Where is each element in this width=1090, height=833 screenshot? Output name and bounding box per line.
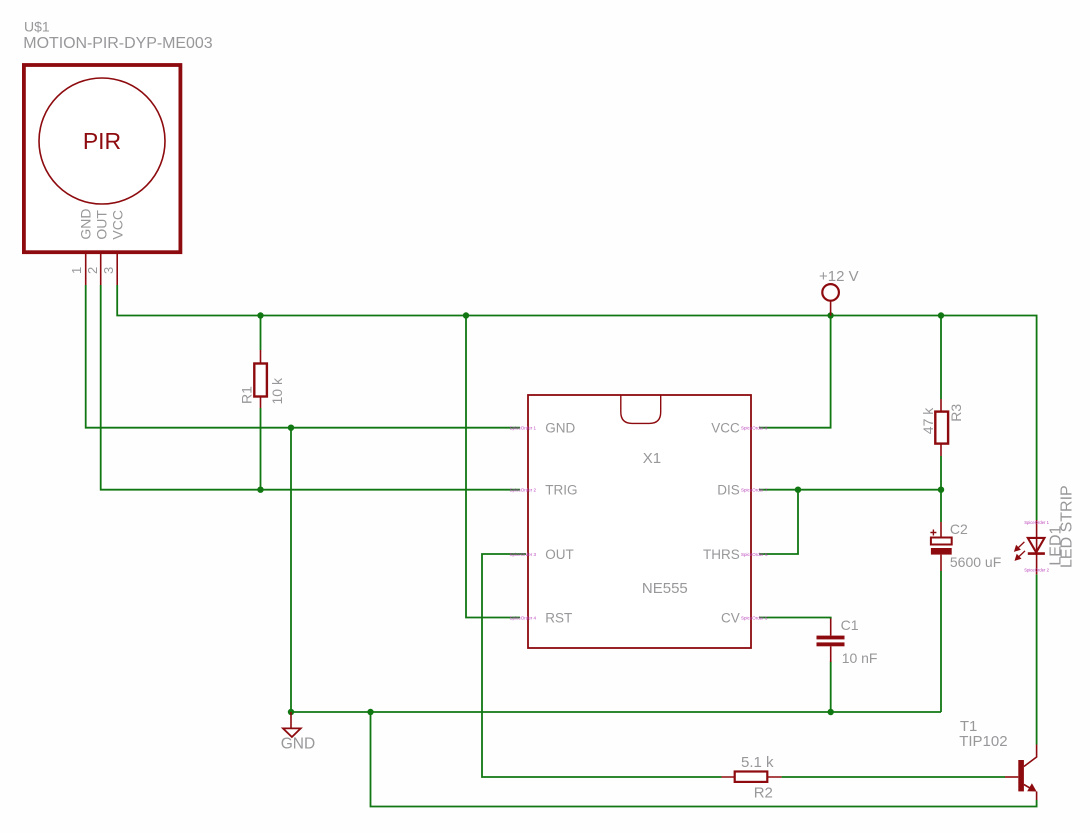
svg-text:GND: GND xyxy=(281,736,315,753)
svg-text:2: 2 xyxy=(85,267,100,274)
label NE555 xyxy=(642,580,688,597)
resistor R2 xyxy=(722,772,782,782)
pin name RST (X1) xyxy=(545,610,572,625)
svg-text:47 k: 47 k xyxy=(920,407,936,434)
svg-text:SpiceOrder 7: SpiceOrder 7 xyxy=(741,488,768,493)
transistor T1 TIP102 xyxy=(1005,745,1037,801)
value 5.1 k (R2) xyxy=(741,754,774,771)
LED LED1 xyxy=(1014,520,1045,574)
junction dot TRIG row R1 bottom xyxy=(257,487,263,493)
pin mark DIS (X1) xyxy=(741,488,768,493)
junction dot RST riser top xyxy=(463,312,469,318)
label C1 xyxy=(841,617,859,633)
svg-text:SpiceOrder 1: SpiceOrder 1 xyxy=(1024,520,1049,525)
svg-text:SpiceOrder 4: SpiceOrder 4 xyxy=(509,615,536,620)
pin mark TRIG (X1) xyxy=(509,488,536,493)
svg-text:OUT: OUT xyxy=(545,547,574,562)
svg-text:MOTION-PIR-DYP-ME003: MOTION-PIR-DYP-ME003 xyxy=(23,35,212,52)
junction dot GND rail x370 xyxy=(367,709,373,715)
svg-text:THRS: THRS xyxy=(703,547,740,562)
wire OUT to R2 xyxy=(482,554,722,777)
svg-text:R1: R1 xyxy=(239,386,255,404)
pin mark anode (LED1) xyxy=(1024,520,1049,525)
value 47 k (R3) xyxy=(920,407,936,434)
pin name DIS (X1) xyxy=(717,483,740,498)
svg-text:C2: C2 xyxy=(950,521,968,537)
svg-text:SpiceOrder 8: SpiceOrder 8 xyxy=(741,426,768,431)
PIR module U$1 body xyxy=(24,65,181,252)
svg-text:X1: X1 xyxy=(643,450,661,467)
module U$1 value label MOTION-PIR-DYP-ME003 xyxy=(23,35,212,52)
value TIP102 (T1) xyxy=(959,733,1007,750)
svg-text:SpiceOrder 2: SpiceOrder 2 xyxy=(1024,567,1049,572)
svg-text:NE555: NE555 xyxy=(642,580,688,597)
wire pin2 to IC TRIG xyxy=(101,285,520,490)
wire DIS-THRS tie xyxy=(760,490,799,554)
value 10 nF (C1) xyxy=(842,650,878,666)
capacitor C2 (polarized) xyxy=(930,522,951,571)
pin mark VCC (X1) xyxy=(741,426,768,431)
svg-text:LED STRIP: LED STRIP xyxy=(1059,485,1076,568)
pin name VCC (X1) xyxy=(711,421,740,436)
module U$1 name label xyxy=(24,19,50,35)
wire C2 to GND rail xyxy=(940,571,942,712)
wire bottom emitter run xyxy=(371,712,1037,807)
pin stub 3 (U$1) xyxy=(116,254,118,286)
pin mark RST (X1) xyxy=(509,615,536,620)
pin name GND (X1) xyxy=(545,421,575,436)
IC X1 NE555 body xyxy=(528,395,751,648)
label C2 xyxy=(950,521,968,537)
svg-text:TRIG: TRIG xyxy=(545,483,577,498)
svg-text:RST: RST xyxy=(545,610,572,625)
resistor R1 xyxy=(254,350,267,408)
wire GND riser x291 xyxy=(290,428,292,712)
svg-text:SpiceOrder 3: SpiceOrder 3 xyxy=(509,552,536,557)
junction dot GND rail x291 xyxy=(288,709,294,715)
junction dot DIS row R3 bottom xyxy=(938,487,944,493)
svg-text:10 nF: 10 nF xyxy=(842,650,878,666)
svg-text:5.1 k: 5.1 k xyxy=(741,754,774,771)
label R3 xyxy=(948,404,964,422)
pin name OUT (X1) xyxy=(545,547,574,562)
wire RST riser x466 xyxy=(466,316,520,618)
junction dot +12V xyxy=(827,312,833,318)
value 5600 uF (C2) xyxy=(950,554,1001,570)
svg-text:VCC: VCC xyxy=(110,210,126,240)
label R2 xyxy=(754,785,773,802)
wire pin1 to IC GND xyxy=(86,285,520,428)
svg-text:10 k: 10 k xyxy=(269,377,285,404)
pin mark CV (X1) xyxy=(741,615,768,620)
svg-text:VCC: VCC xyxy=(711,421,740,436)
svg-text:GND: GND xyxy=(77,208,93,239)
pin stub 1 (U$1) xyxy=(85,254,87,286)
resistor R3 xyxy=(935,399,948,456)
pin number 1 (U$1) xyxy=(69,267,84,274)
svg-text:C1: C1 xyxy=(841,617,859,633)
svg-text:5600 uF: 5600 uF xyxy=(950,554,1001,570)
svg-text:DIS: DIS xyxy=(717,483,740,498)
svg-text:SpiceOrder 1: SpiceOrder 1 xyxy=(509,426,536,431)
label T1 xyxy=(960,718,978,735)
svg-text:SpiceOrder 6: SpiceOrder 6 xyxy=(741,552,768,557)
pin number 3 (U$1) xyxy=(101,267,116,274)
svg-text:3: 3 xyxy=(101,267,116,274)
label +12 V xyxy=(819,268,859,285)
value LED STRIP (LED1) xyxy=(1059,485,1076,568)
wire DIS row xyxy=(760,489,942,491)
svg-text:PIR: PIR xyxy=(83,128,121,154)
junction dot R1 top xyxy=(257,312,263,318)
pin number 2 (U$1) xyxy=(85,267,100,274)
pin name CV (X1) xyxy=(721,610,740,625)
label LED1 xyxy=(1048,525,1065,565)
pin stub 2 (U$1) xyxy=(100,254,102,286)
svg-text:OUT: OUT xyxy=(94,210,110,240)
wire CV to C1 xyxy=(760,618,831,620)
pin name THRS (X1) xyxy=(703,547,740,562)
wire C1 to GND rail xyxy=(830,662,832,713)
pin label VCC (U$1) xyxy=(110,210,126,240)
svg-text:+12 V: +12 V xyxy=(819,268,859,285)
junction dot DIS row x798 xyxy=(795,487,801,493)
pin mark THRS (X1) xyxy=(741,552,768,557)
wire R2 to T1 base xyxy=(782,776,1005,778)
wire R3 branch xyxy=(940,316,942,490)
svg-text:R2: R2 xyxy=(754,785,773,802)
pin name TRIG (X1) xyxy=(545,483,577,498)
svg-text:SpiceOrder 2: SpiceOrder 2 xyxy=(509,488,536,493)
capacitor C1 xyxy=(817,619,845,663)
svg-text:CV: CV xyxy=(721,610,740,625)
label R1 xyxy=(239,386,255,404)
svg-text:GND: GND xyxy=(545,421,575,436)
value 10 k (R1) xyxy=(269,377,285,404)
junction dot GND row x291 xyxy=(288,425,294,431)
label GND (ground) xyxy=(281,736,315,753)
pin label GND (U$1) xyxy=(77,208,93,239)
wire VCC pin to rail xyxy=(760,316,831,428)
junction dot R3 top xyxy=(938,312,944,318)
wire R1 branch xyxy=(260,316,262,490)
svg-text:SpiceOrder 5: SpiceOrder 5 xyxy=(741,615,768,620)
svg-text:R3: R3 xyxy=(948,404,964,422)
wire pin3 to +12V rail xyxy=(117,285,1036,520)
wire GND rail xyxy=(291,711,941,713)
svg-text:U$1: U$1 xyxy=(24,19,50,35)
label X1 xyxy=(643,450,661,467)
pin mark OUT (X1) xyxy=(509,552,536,557)
junction dot GND rail C1 xyxy=(828,709,834,715)
svg-text:1: 1 xyxy=(69,267,84,274)
wire LED to T1 collector xyxy=(1036,575,1038,745)
ground symbol GND xyxy=(283,712,301,737)
pin label OUT (U$1) xyxy=(94,210,110,240)
pin mark GND (X1) xyxy=(509,426,536,431)
svg-text:TIP102: TIP102 xyxy=(959,733,1007,750)
pin mark cathode (LED1) xyxy=(1024,567,1049,572)
supply +12V symbol xyxy=(822,284,839,315)
wire R3 to C2 xyxy=(940,490,942,522)
